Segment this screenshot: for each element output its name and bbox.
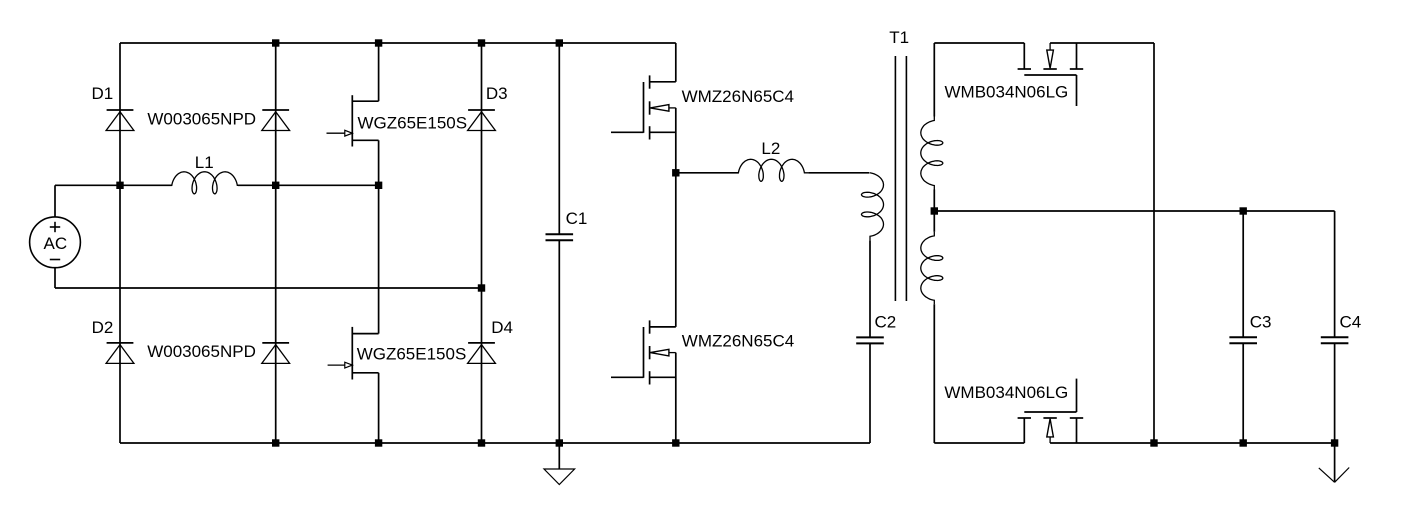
transformer T1 secondary winding (lower) — [921, 232, 943, 304]
node top rail / C1 — [556, 39, 563, 46]
svg-text:WMZ26N65C4: WMZ26N65C4 — [682, 87, 794, 106]
svg-text:C4: C4 — [1340, 313, 1362, 332]
node bottom rail / WMZ source — [672, 439, 679, 446]
AC source V1 circle — [30, 217, 81, 268]
node top rail / W003065NPD — [272, 39, 279, 46]
wire secondary vertical (source return) — [1153, 43, 1155, 443]
capacitor C4 — [1334, 211, 1336, 337]
wire primary to C2 — [869, 240, 871, 337]
node mid rail / WGZ — [375, 182, 382, 189]
wire secondary center tap lead — [933, 190, 935, 232]
svg-text:WMB034N06LG: WMB034N06LG — [945, 83, 1069, 102]
wire D3/D4 branch vertical — [481, 43, 483, 443]
node top rail / D3 — [478, 39, 485, 46]
ground (secondary) — [1334, 443, 1336, 482]
svg-text:WGZ65E150S: WGZ65E150S — [358, 113, 468, 132]
wire W003065NPD branch vertical — [275, 43, 277, 443]
wire L2 to transformer primary — [808, 172, 869, 174]
wire secondary bottom lead — [933, 304, 935, 443]
transistor WMB034N06LG (lower) — [1024, 411, 1076, 413]
wire bottom rail (secondary side) — [934, 442, 1024, 444]
node bottom rail / C1 ground — [556, 439, 563, 446]
transistor WGZ65E150S (lower) body — [351, 327, 353, 380]
svg-text:WGZ65E150S: WGZ65E150S — [357, 344, 467, 363]
svg-text:C1: C1 — [566, 209, 588, 228]
wire half-bridge node to L2 — [676, 172, 739, 174]
wire bottom rail (primary side) — [120, 442, 870, 444]
node bottom rail / D4 — [478, 439, 485, 446]
svg-text:L1: L1 — [195, 153, 214, 172]
wire AC bottom net — [55, 287, 482, 289]
AC source plus sign — [50, 226, 60, 228]
node AC return / D3-D4 — [478, 284, 485, 291]
inductor L1 — [168, 172, 242, 194]
ground (primary) — [558, 443, 560, 469]
wire top rail (secondary side) — [934, 42, 1024, 44]
diode W003065NPD (lower) — [262, 342, 289, 344]
node bottom rail / W003065NPD — [272, 439, 279, 446]
transistor WMB034N06LG (upper) — [1024, 74, 1076, 76]
wire D1/D2 branch vertical — [119, 43, 121, 443]
node center tap — [931, 207, 938, 214]
transformer T1 core — [894, 56, 896, 301]
svg-text:W003065NPD: W003065NPD — [147, 342, 256, 361]
svg-text:WMZ26N65C4: WMZ26N65C4 — [682, 332, 794, 351]
node D1-L1 junction — [116, 182, 123, 189]
diode D3 — [468, 109, 495, 111]
svg-text:D3: D3 — [486, 84, 508, 103]
node tap rail / C3 — [1240, 207, 1247, 214]
transistor WMZ26N65C4 (upper) — [643, 82, 645, 133]
svg-text:AC: AC — [44, 234, 68, 253]
svg-text:WMB034N06LG: WMB034N06LG — [944, 383, 1068, 402]
diode D2 — [107, 342, 134, 344]
svg-text:D4: D4 — [491, 318, 513, 337]
diode D1 — [107, 109, 134, 111]
transistor WMZ26N65C4 (lower) — [643, 327, 645, 378]
wire center tap rail — [934, 210, 1334, 212]
wire top rail (primary side) — [120, 42, 676, 44]
transformer T1 primary winding — [862, 173, 884, 241]
capacitor C1 — [558, 43, 560, 234]
node bottom rail / WGZ source — [375, 439, 382, 446]
node bottom rail / return — [1150, 439, 1157, 446]
wire secondary top lead — [933, 43, 935, 117]
svg-text:C3: C3 — [1250, 313, 1272, 332]
node bottom rail / C3 — [1240, 439, 1247, 446]
svg-text:D2: D2 — [92, 318, 114, 337]
node half-bridge midpoint — [672, 169, 679, 176]
transistor WGZ65E150S (lower) gate — [328, 364, 347, 366]
capacitor C3 — [1242, 211, 1244, 337]
transistor WGZ65E150S (upper) gate — [327, 132, 346, 134]
wire AC bottom lead — [54, 268, 56, 288]
diode D4 — [468, 342, 495, 344]
svg-text:C2: C2 — [875, 313, 897, 332]
wire AC top lead — [54, 185, 56, 217]
svg-text:D1: D1 — [92, 84, 114, 103]
diode W003065NPD (upper) — [262, 109, 289, 111]
node mid rail / W003065NPD — [272, 182, 279, 189]
node top rail / WGZ drain — [375, 39, 382, 46]
node bottom rail / C4 ground — [1331, 439, 1338, 446]
wire mid rail (L1 net) — [55, 184, 172, 186]
svg-text:W003065NPD: W003065NPD — [147, 109, 256, 128]
svg-text:L2: L2 — [761, 139, 780, 158]
capacitor C2 — [856, 336, 884, 338]
transformer T1 secondary winding (upper) — [921, 117, 943, 190]
AC source minus sign — [50, 259, 60, 261]
transistor WGZ65E150S (upper) body — [351, 95, 353, 146]
inductor L2 — [734, 159, 808, 181]
svg-text:T1: T1 — [889, 28, 909, 47]
